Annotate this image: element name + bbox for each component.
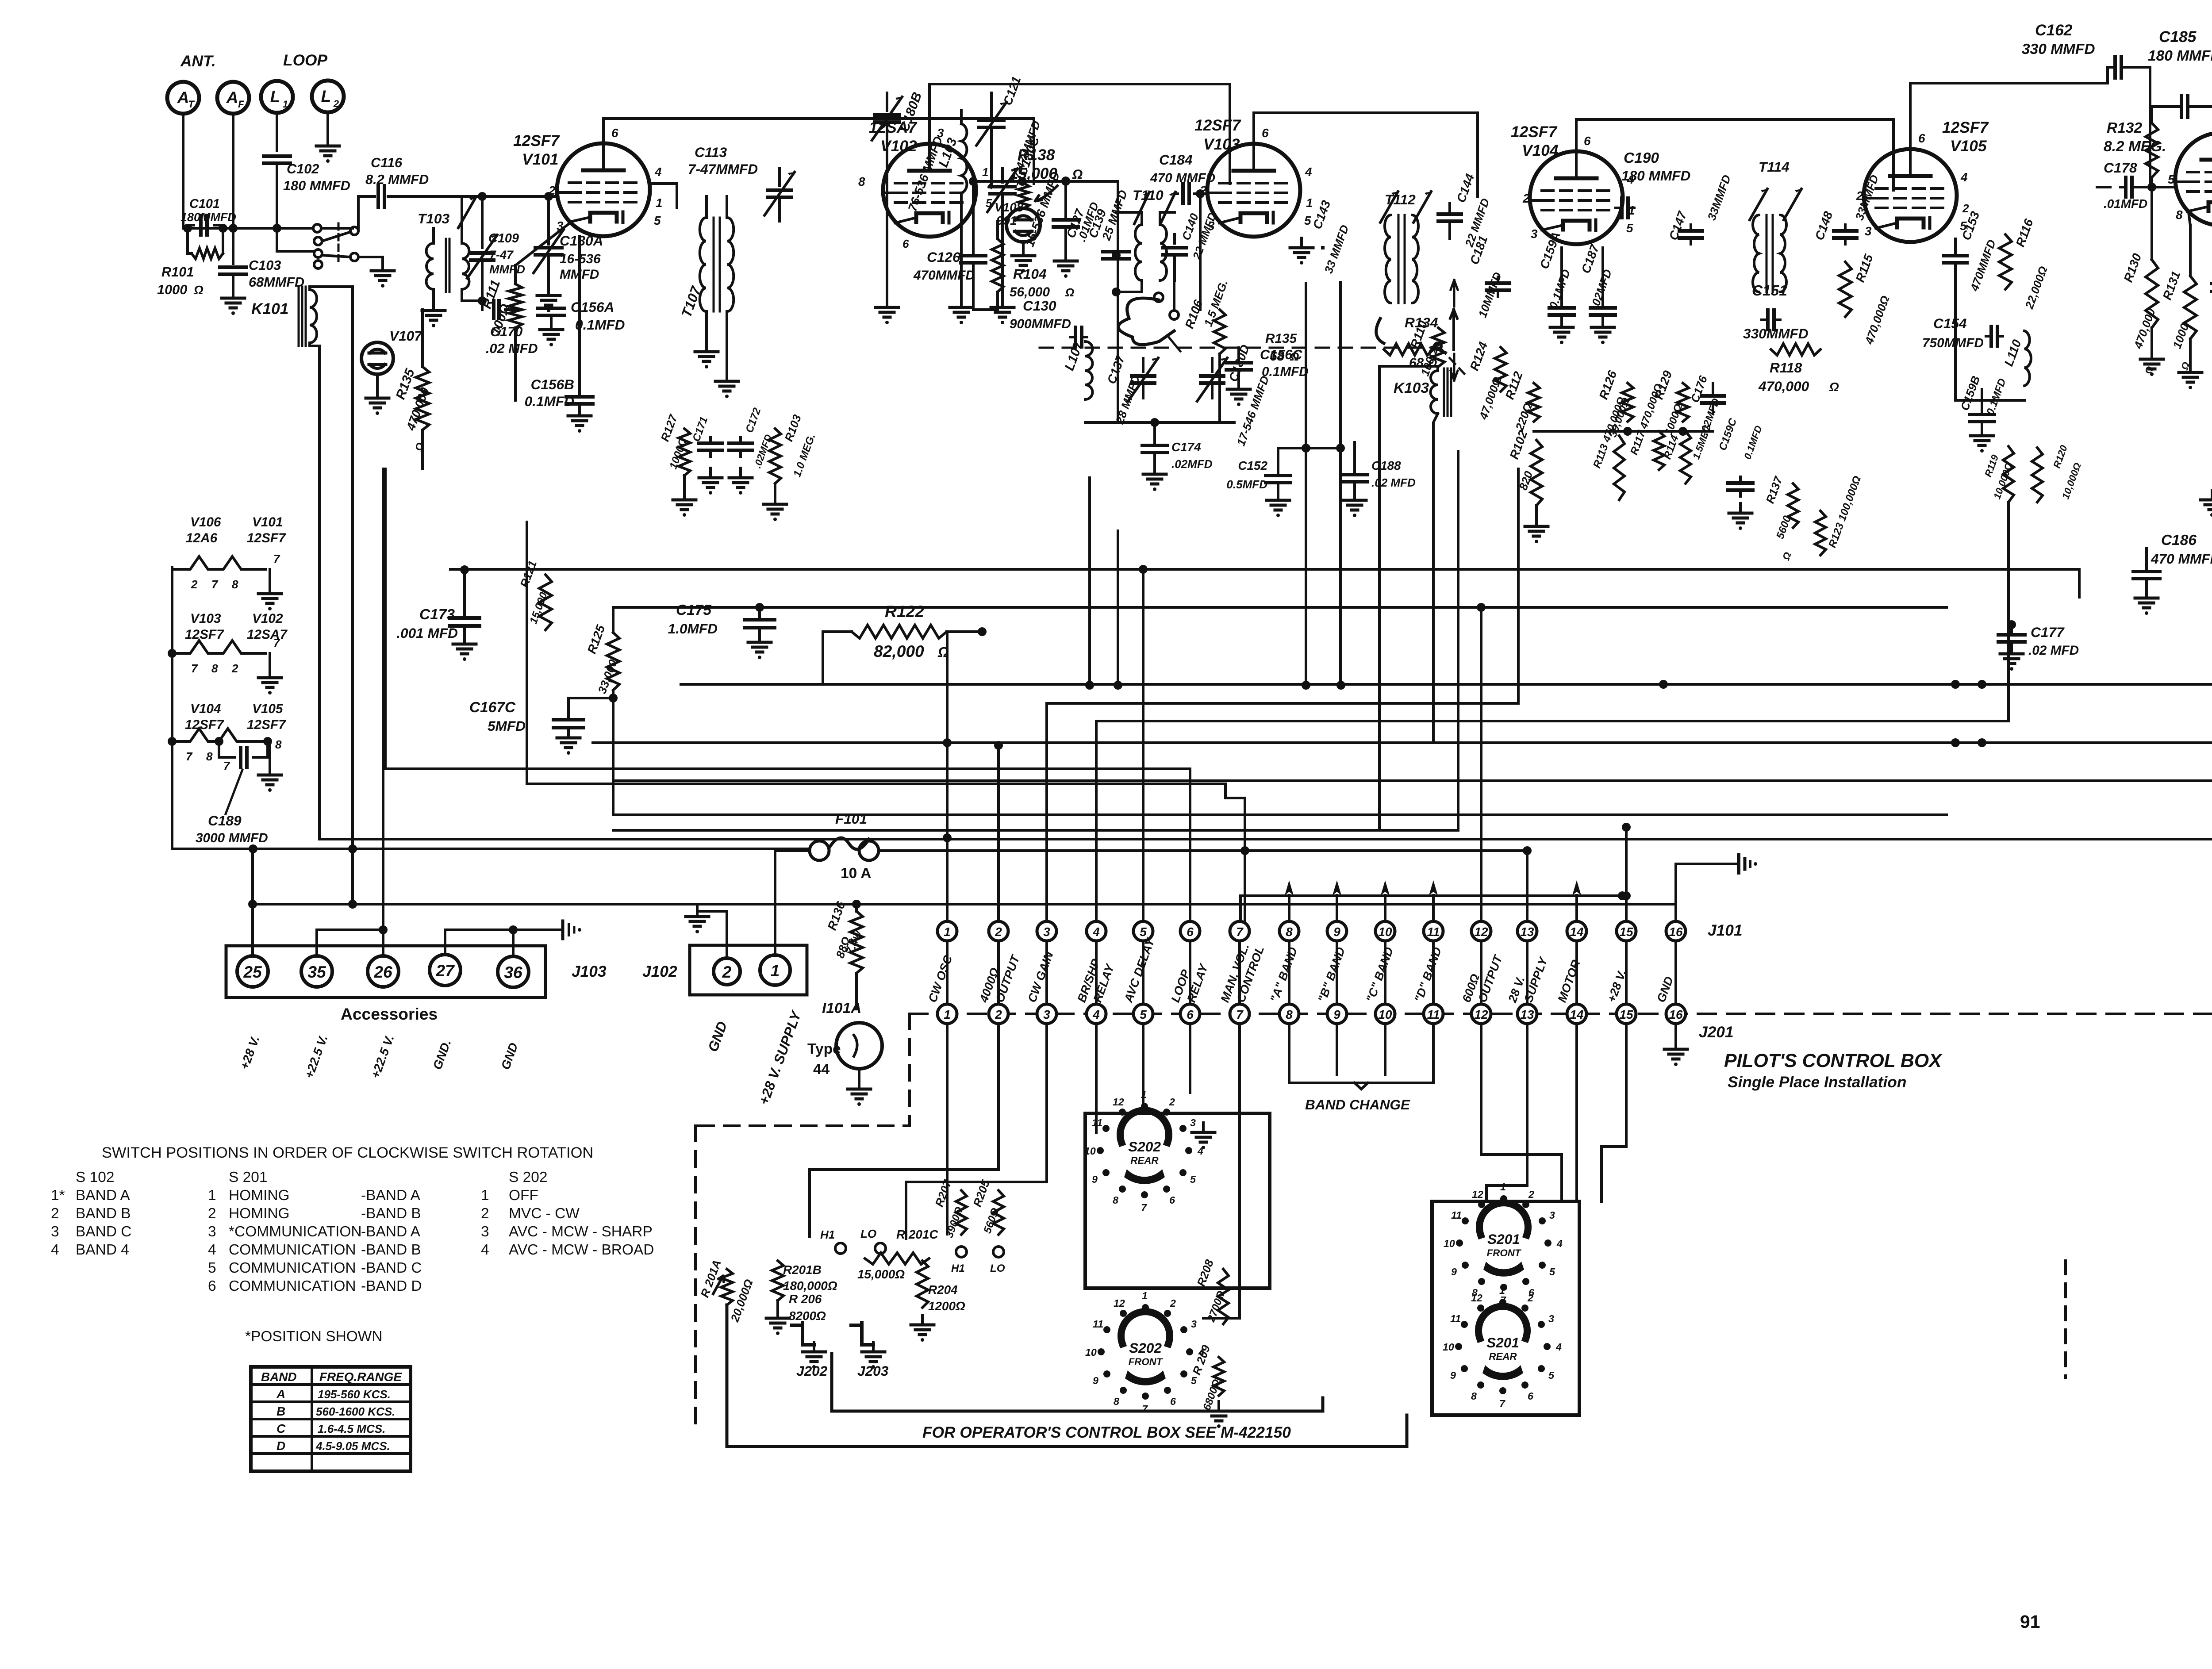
resistor R137 <box>1763 474 1798 562</box>
capacitor C154 <box>1922 315 2003 350</box>
svg-text:12: 12 <box>1113 1096 1124 1108</box>
svg-text:ANT.: ANT. <box>180 53 216 70</box>
svg-text:V102: V102 <box>252 611 283 626</box>
svg-text:S202: S202 <box>1129 1340 1162 1356</box>
svg-text:560-1600 KCS.: 560-1600 KCS. <box>316 1405 395 1418</box>
svg-text:6: 6 <box>1584 134 1591 148</box>
label pin 4 BR/SHP <box>1075 957 1102 1004</box>
switch S102 wafer <box>313 223 358 269</box>
capacitor C159A <box>1537 230 1574 344</box>
svg-text:13: 13 <box>1520 1008 1534 1021</box>
label T103 <box>418 211 449 226</box>
svg-text:T114: T114 <box>1759 159 1790 175</box>
svg-text:C101: C101 <box>189 197 220 211</box>
capacitor C187 <box>1579 242 1615 344</box>
svg-text:4: 4 <box>1092 1008 1100 1021</box>
svg-text:Accessories: Accessories <box>341 1005 438 1023</box>
svg-text:8: 8 <box>1471 1390 1477 1402</box>
label pin 7 MAN. VOL. <box>1218 942 1252 1004</box>
svg-text:5: 5 <box>1140 925 1147 939</box>
label pin 16 GND <box>1654 975 1676 1004</box>
wire bus 1679 <box>593 741 2212 744</box>
svg-text:BAND B: BAND B <box>76 1205 131 1222</box>
label 28V supply <box>756 1008 805 1107</box>
svg-text:REAR: REAR <box>1130 1155 1158 1166</box>
resistor R110 <box>1408 318 1444 378</box>
svg-text:V104: V104 <box>1522 142 1559 159</box>
svg-text:6: 6 <box>208 1278 216 1294</box>
pin numbers V105 <box>1856 131 1969 238</box>
svg-text:4.5-9.05 MCS.: 4.5-9.05 MCS. <box>315 1439 390 1453</box>
svg-text:12SF7: 12SF7 <box>247 531 286 545</box>
resistor R101 <box>157 228 223 297</box>
svg-text:-BAND D: -BAND D <box>361 1278 422 1294</box>
svg-text:1: 1 <box>1141 1089 1147 1100</box>
svg-text:6: 6 <box>1528 1390 1534 1402</box>
rotary S202 FRONT <box>1085 1290 1204 1415</box>
svg-text:180,000Ω: 180,000Ω <box>783 1279 837 1293</box>
svg-text:Ω: Ω <box>1829 380 1839 394</box>
svg-text:MVC - CW: MVC - CW <box>509 1205 580 1222</box>
svg-text:11: 11 <box>1093 1318 1103 1330</box>
drop t2 <box>810 1024 998 1236</box>
svg-text:2: 2 <box>191 578 198 591</box>
terminal pair 4 J101/J201 <box>1087 921 1106 1024</box>
rotary S202 REAR <box>1084 1089 1203 1213</box>
capacitor C185 <box>2148 28 2212 117</box>
svg-text:LO: LO <box>860 1227 876 1240</box>
svg-text:A: A <box>276 1387 285 1401</box>
svg-text:-BAND A: -BAND A <box>361 1187 421 1204</box>
svg-text:180 MMFD: 180 MMFD <box>283 178 350 193</box>
svg-text:10: 10 <box>1443 1341 1454 1353</box>
svg-text:4: 4 <box>1556 1238 1563 1249</box>
svg-text:J102: J102 <box>642 963 677 980</box>
svg-text:2: 2 <box>995 1008 1002 1021</box>
terminal pair 1 J101/J201 <box>937 921 957 1024</box>
svg-text:H1: H1 <box>820 1228 835 1241</box>
heater chain 3 <box>168 729 282 792</box>
riser t7 <box>527 522 1249 921</box>
label V102 <box>869 119 918 155</box>
wire L1 to switch <box>277 228 314 251</box>
svg-text:9: 9 <box>1451 1266 1457 1278</box>
capacitor C163B <box>2200 447 2212 517</box>
transformer T112 <box>1380 192 1431 303</box>
svg-text:C152: C152 <box>1238 459 1267 472</box>
svg-text:3: 3 <box>481 1224 489 1240</box>
svg-text:15,000: 15,000 <box>1010 165 1057 182</box>
svg-text:8200Ω: 8200Ω <box>789 1309 826 1323</box>
svg-text:8: 8 <box>1286 925 1293 939</box>
svg-text:3: 3 <box>1548 1313 1554 1324</box>
wire V103 plate top <box>1254 113 1478 196</box>
svg-text:R122: R122 <box>885 602 924 621</box>
svg-text:2: 2 <box>548 184 556 197</box>
S102 list <box>51 1169 131 1258</box>
svg-text:7: 7 <box>1142 1403 1148 1415</box>
resistors R117 R114 <box>1628 382 1713 483</box>
svg-text:11: 11 <box>1427 925 1440 939</box>
svg-text:12: 12 <box>1471 1292 1482 1304</box>
label V108 <box>995 200 1024 227</box>
svg-text:10 A: 10 A <box>841 865 871 882</box>
svg-text:1000: 1000 <box>157 282 187 297</box>
resistor R127 <box>658 412 696 517</box>
terminal AF <box>217 82 249 228</box>
svg-text:330MMFD: 330MMFD <box>1743 326 1809 341</box>
capacitor C139 <box>1086 188 1130 259</box>
svg-text:11: 11 <box>1450 1313 1461 1324</box>
svg-text:25: 25 <box>243 963 262 981</box>
svg-text:8: 8 <box>206 750 213 763</box>
resistor R136 <box>825 899 864 1009</box>
label pin 5 AVC DELAY <box>1121 935 1157 1005</box>
wire V102 top <box>929 84 1230 184</box>
svg-text:470,000: 470,000 <box>1758 378 1809 394</box>
svg-text:3: 3 <box>51 1224 59 1240</box>
label J103 <box>572 963 607 980</box>
ground C103 <box>222 288 245 315</box>
svg-text:C175: C175 <box>676 602 711 618</box>
svg-text:7: 7 <box>186 750 193 763</box>
svg-text:T103: T103 <box>418 211 449 226</box>
svg-text:2: 2 <box>231 662 238 675</box>
wire C188 drop <box>1114 531 1122 690</box>
svg-text:3: 3 <box>1549 1209 1555 1221</box>
svg-text:12SF7: 12SF7 <box>1194 117 1241 134</box>
svg-text:6: 6 <box>1170 1396 1176 1407</box>
riser t6 <box>385 769 1190 921</box>
capacitor C103 <box>220 228 304 293</box>
box S202 <box>1085 1113 1270 1288</box>
svg-text:K103: K103 <box>1394 380 1429 396</box>
label pin 13 28 V. <box>1505 975 1527 1005</box>
svg-text:470 MMFD: 470 MMFD <box>2151 551 2212 567</box>
svg-text:12SA7: 12SA7 <box>247 627 288 642</box>
fuse F101 <box>810 811 879 882</box>
svg-text:HOMING: HOMING <box>229 1205 290 1222</box>
svg-text:12SF7: 12SF7 <box>1511 123 1558 141</box>
svg-text:BAND A: BAND A <box>76 1187 130 1204</box>
label J101 <box>1708 922 1743 939</box>
svg-text:R 201C: R 201C <box>896 1228 938 1241</box>
capacitor C162 <box>2022 22 2150 78</box>
terminal pair 15 J101/J201 <box>1617 921 1636 1024</box>
wire bus 1842 <box>613 813 1947 816</box>
svg-text:10: 10 <box>1378 925 1392 939</box>
page number <box>2020 1611 2040 1632</box>
svg-text:L: L <box>321 87 331 105</box>
resistor R201B <box>772 1261 837 1301</box>
svg-text:C126: C126 <box>927 249 960 265</box>
rheostat R135b <box>1118 280 1299 364</box>
terminal J102-2 <box>714 958 740 985</box>
svg-text:C109: C109 <box>488 231 519 246</box>
svg-text:11: 11 <box>1092 1117 1102 1128</box>
svg-text:4: 4 <box>481 1242 489 1258</box>
svg-text:12SF7: 12SF7 <box>247 717 286 732</box>
resistor R130 <box>2121 190 2163 376</box>
svg-text:1: 1 <box>1142 1290 1148 1301</box>
svg-text:6: 6 <box>611 126 618 140</box>
transformer T110 <box>1112 192 1175 296</box>
arrows band pins <box>1285 880 1581 921</box>
pin numbers V102 <box>858 126 994 250</box>
svg-text:.02 MFD: .02 MFD <box>486 341 538 356</box>
svg-text:5: 5 <box>1191 1375 1197 1386</box>
svg-text:.01MFD: .01MFD <box>2104 197 2147 211</box>
wires control box <box>727 1305 1407 1446</box>
label pin 8 "A" BAND <box>1267 945 1300 1004</box>
svg-text:HOMING: HOMING <box>229 1187 290 1204</box>
terminal pair 14 J101/J201 <box>1567 921 1586 1024</box>
label pin 3 CW GAIN <box>1025 950 1056 1004</box>
svg-text:36: 36 <box>504 963 522 982</box>
svg-text:3000 MMFD: 3000 MMFD <box>196 831 268 845</box>
svg-text:R132: R132 <box>2107 120 2142 136</box>
svg-text:0.5MFD: 0.5MFD <box>1226 478 1267 491</box>
resistor R208 <box>1194 1258 1229 1324</box>
svg-text:68MMFD: 68MMFD <box>249 274 304 290</box>
label pin 13 SUPPLY <box>1521 954 1550 1004</box>
svg-text:.02 MFD: .02 MFD <box>2028 643 2079 658</box>
riser t15 <box>1622 823 1631 921</box>
svg-text:AVC - MCW - BROAD: AVC - MCW - BROAD <box>509 1242 654 1258</box>
wire V102 pin4 out <box>976 177 1118 186</box>
svg-text:C102: C102 <box>287 161 319 176</box>
svg-text:V102: V102 <box>880 138 917 155</box>
svg-text:15,000Ω: 15,000Ω <box>857 1267 905 1281</box>
svg-text:5: 5 <box>208 1260 216 1276</box>
wire V106 grid <box>2139 183 2175 192</box>
svg-text:7: 7 <box>191 662 198 675</box>
label pin 2 OUTPUT <box>993 952 1022 1004</box>
svg-text:2: 2 <box>481 1205 489 1222</box>
svg-text:2: 2 <box>1169 1096 1175 1108</box>
pin numbers V101 <box>548 126 663 233</box>
svg-text:K101: K101 <box>251 300 288 318</box>
svg-text:C189: C189 <box>208 813 242 829</box>
svg-text:FRONT: FRONT <box>1129 1356 1164 1367</box>
resistor R138 <box>1010 146 1083 208</box>
heater chain 2 <box>168 636 281 694</box>
svg-text:R135: R135 <box>1265 331 1297 346</box>
svg-text:330 MMFD: 330 MMFD <box>2022 41 2095 58</box>
jack J203 <box>851 1323 889 1379</box>
svg-text:3: 3 <box>937 126 944 140</box>
svg-text:5: 5 <box>1190 1174 1196 1185</box>
ground J201 <box>1664 1024 1687 1066</box>
svg-text:8.2 MEG.: 8.2 MEG. <box>2104 138 2166 155</box>
svg-text:12: 12 <box>1474 925 1488 939</box>
svg-text:B: B <box>276 1404 285 1418</box>
dashed control box border <box>695 1014 910 1433</box>
svg-text:7-47MMFD: 7-47MMFD <box>688 161 758 177</box>
svg-text:7: 7 <box>1236 1008 1244 1021</box>
svg-text:15: 15 <box>1619 1008 1633 1021</box>
svg-text:2: 2 <box>1856 189 1863 203</box>
svg-text:2: 2 <box>1170 1297 1176 1309</box>
resistor R106 <box>1183 278 1231 422</box>
variable cap C137 <box>1105 353 1158 426</box>
svg-text:C154: C154 <box>1933 315 1967 331</box>
svg-text:7: 7 <box>223 759 230 772</box>
terminal AT <box>167 82 199 228</box>
svg-text:C156A: C156A <box>571 299 614 315</box>
svg-text:V105: V105 <box>252 702 283 716</box>
svg-text:2: 2 <box>722 963 732 981</box>
variable cap arrows T103 <box>458 197 476 228</box>
svg-text:C190: C190 <box>1624 150 1659 166</box>
label V103 <box>1194 117 1241 153</box>
terminal pair 16 J101/J201 <box>1666 921 1686 1024</box>
band change bracket <box>1289 1024 1433 1113</box>
svg-text:5: 5 <box>2168 173 2175 186</box>
resistor R111 <box>480 265 522 400</box>
terminal pair 7 J101/J201 <box>1230 921 1249 1024</box>
capacitor C130 <box>1010 298 1087 347</box>
capacitor C178 <box>2097 160 2147 211</box>
rotary S201 FRONT <box>1444 1181 1563 1306</box>
svg-text:9: 9 <box>1333 925 1340 939</box>
band table <box>251 1367 411 1471</box>
svg-text:V104: V104 <box>190 702 221 716</box>
terminal pair 11 J101/J201 <box>1424 921 1443 1024</box>
capacitor C156A <box>538 292 625 333</box>
resistor R112 <box>1503 369 1540 433</box>
svg-text:S 102: S 102 <box>76 1169 114 1186</box>
riser t16 <box>1676 864 1739 921</box>
svg-text:BAND CHANGE: BAND CHANGE <box>1305 1097 1410 1113</box>
svg-text:2: 2 <box>51 1205 59 1222</box>
svg-text:8: 8 <box>1286 1008 1293 1021</box>
svg-text:7: 7 <box>1141 1202 1147 1213</box>
ground S202 top <box>1192 1123 1215 1149</box>
svg-text:5: 5 <box>1549 1266 1555 1278</box>
capacitor C116 <box>365 155 557 207</box>
svg-text:D: D <box>276 1439 285 1453</box>
svg-text:COMMUNICATION: COMMUNICATION <box>229 1278 356 1294</box>
riser t3 <box>1047 469 1518 921</box>
terminal L1 <box>261 81 293 150</box>
label Accessories <box>341 1005 438 1023</box>
label T110 <box>1133 187 1164 203</box>
sideways ground t16 <box>1739 855 1757 873</box>
svg-text:BAND 4: BAND 4 <box>76 1242 129 1258</box>
svg-text:26: 26 <box>373 963 392 981</box>
resistor R122 <box>823 602 987 684</box>
resistor R115 <box>1839 252 1892 346</box>
svg-text:1: 1 <box>1499 1285 1505 1296</box>
svg-text:C186: C186 <box>2161 532 2197 549</box>
label V101 <box>513 132 560 168</box>
svg-text:C188: C188 <box>1371 459 1401 472</box>
coil L107 <box>1062 339 1093 399</box>
svg-text:3: 3 <box>1191 1318 1197 1330</box>
ground S102 <box>358 257 394 288</box>
svg-text:*COMMUNICATION: *COMMUNICATION <box>229 1224 362 1240</box>
svg-text:180 MMFD: 180 MMFD <box>2148 48 2212 64</box>
capacitor C102 <box>264 156 350 228</box>
wire bus 1373 <box>613 603 1947 612</box>
label pin 2 4000Ω <box>977 966 1002 1005</box>
transformer T114 <box>1750 189 1801 292</box>
svg-text:C174: C174 <box>1171 440 1201 454</box>
relay K103 <box>1379 366 1451 830</box>
svg-text:12SF7: 12SF7 <box>513 132 560 150</box>
svg-text:V103: V103 <box>190 611 221 626</box>
svg-text:8: 8 <box>2176 208 2183 222</box>
capacitor C181 <box>1467 234 1509 319</box>
riser t2 <box>994 741 1003 921</box>
svg-text:I101A: I101A <box>822 1000 861 1017</box>
svg-text:44: 44 <box>813 1061 830 1078</box>
resistor R201C <box>857 1253 929 1281</box>
resistor R205 <box>970 1178 1005 1274</box>
svg-text:1: 1 <box>944 925 951 939</box>
svg-text:C113: C113 <box>695 144 727 160</box>
resistor R118 <box>1758 344 1839 394</box>
svg-text:2: 2 <box>208 1205 216 1222</box>
drop t5 <box>1142 1024 1144 1106</box>
svg-text:V103: V103 <box>1203 136 1240 153</box>
svg-text:C173: C173 <box>419 606 455 623</box>
resistor R103 <box>764 413 818 521</box>
svg-text:0.1MFD: 0.1MFD <box>1262 364 1309 379</box>
svg-text:7: 7 <box>1499 1398 1505 1409</box>
dashed AVC line <box>1040 280 1464 380</box>
svg-text:2: 2 <box>1522 192 1530 205</box>
resistor R129 <box>1652 368 1689 437</box>
label pin 15 +28 V. <box>1605 968 1628 1004</box>
label pin 4 RELAY <box>1091 961 1117 1004</box>
heater chain labels 1 <box>186 515 286 545</box>
terminal pair 6 J101/J201 <box>1180 921 1200 1024</box>
capacitor C173 <box>396 565 480 661</box>
svg-text:REAR: REAR <box>1489 1351 1517 1362</box>
svg-text:BAND C: BAND C <box>76 1224 131 1240</box>
svg-text:-BAND B: -BAND B <box>361 1205 421 1222</box>
svg-text:AVC - MCW - SHARP: AVC - MCW - SHARP <box>509 1224 653 1240</box>
svg-text:C156C: C156C <box>1260 347 1302 362</box>
labels pilots control box <box>1724 1050 1943 1091</box>
terminal 36 <box>498 925 563 987</box>
svg-text:13: 13 <box>1520 925 1534 939</box>
riser t4 <box>1096 502 2008 921</box>
svg-text:*POSITION SHOWN: *POSITION SHOWN <box>245 1328 383 1345</box>
terminals H1 LO <box>820 1227 938 1254</box>
svg-text:2: 2 <box>333 98 339 109</box>
label C143 <box>1310 198 1333 248</box>
svg-text:L: L <box>270 87 280 106</box>
label T114 <box>1759 159 1790 175</box>
svg-text:COMMUNICATION: COMMUNICATION <box>229 1260 356 1276</box>
svg-text:900MMFD: 900MMFD <box>1010 317 1071 331</box>
label LOOP <box>283 52 328 69</box>
tube V105 <box>1864 149 1957 242</box>
svg-text:R 206: R 206 <box>789 1292 822 1306</box>
svg-text:R101: R101 <box>161 264 194 280</box>
svg-text:3: 3 <box>1190 1117 1196 1128</box>
terminal 25 <box>237 849 268 987</box>
lamp I101A <box>807 1000 882 1106</box>
svg-text:9: 9 <box>1450 1370 1456 1381</box>
capacitor C184 <box>1150 152 1215 203</box>
capacitor C190 <box>1616 150 1690 218</box>
resistor R207 <box>932 1178 967 1274</box>
stage loop V102 <box>1085 418 1234 427</box>
